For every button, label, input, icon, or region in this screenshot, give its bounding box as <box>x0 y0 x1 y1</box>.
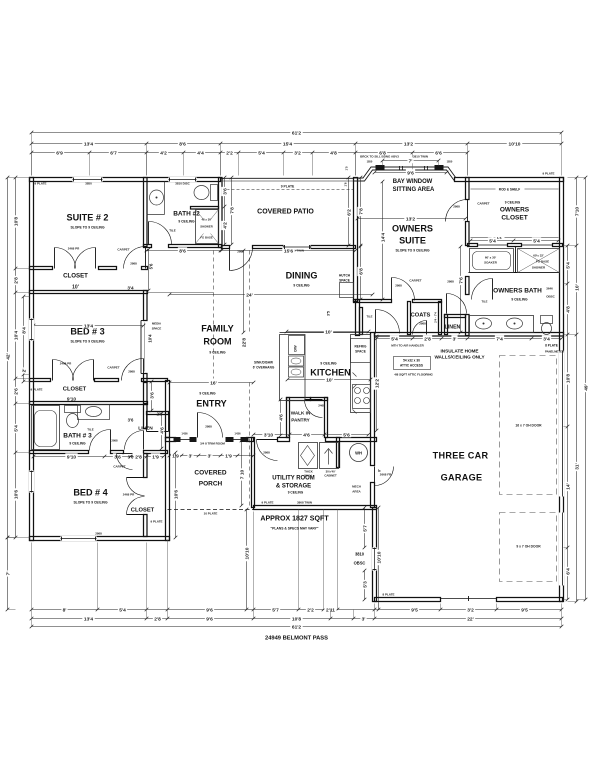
svg-text:3'5: 3'5 <box>327 311 331 316</box>
svg-text:SLOPE TO 9 CEILING: SLOPE TO 9 CEILING <box>395 249 430 253</box>
svg-text:10'4: 10'4 <box>13 331 19 341</box>
svg-text:2468: 2468 <box>318 404 325 408</box>
svg-text:FG BASE: FG BASE <box>200 236 213 240</box>
svg-text:10'4: 10'4 <box>148 334 153 343</box>
svg-text:3': 3' <box>189 453 193 459</box>
svg-text:CARPET: CARPET <box>107 366 119 370</box>
svg-text:7': 7' <box>5 572 11 576</box>
svg-text:1'9: 1'9 <box>225 453 232 459</box>
svg-text:15'4: 15'4 <box>283 141 293 147</box>
svg-text:8'6: 8'6 <box>179 141 186 147</box>
svg-text:5'7: 5'7 <box>272 607 279 613</box>
svg-text:22': 22' <box>467 616 474 622</box>
svg-text:& STORAGE: & STORAGE <box>276 484 311 490</box>
svg-text:54 x32 x 30: 54 x32 x 30 <box>403 359 420 363</box>
svg-text:"PLANS & SPECS MAY VARY": "PLANS & SPECS MAY VARY" <box>271 527 319 531</box>
svg-text:1436: 1436 <box>181 432 188 436</box>
svg-text:1436: 1436 <box>234 432 241 436</box>
svg-text:8': 8' <box>378 469 382 472</box>
svg-text:SOAKER: SOAKER <box>484 261 498 265</box>
svg-text:6'6: 6'6 <box>435 150 442 156</box>
svg-text:2'4 - 7'4: 2'4 - 7'4 <box>434 312 438 323</box>
svg-text:13'4: 13'4 <box>84 616 94 622</box>
svg-text:24949 BELMONT PASS: 24949 BELMONT PASS <box>265 636 328 642</box>
svg-text:SPACE: SPACE <box>355 350 366 354</box>
svg-text:60' x 30': 60' x 30' <box>485 256 497 260</box>
svg-text:9 PLATE: 9 PLATE <box>262 501 274 505</box>
svg-text:48 x 30': 48 x 30' <box>202 218 212 222</box>
svg-text:2468 PR: 2468 PR <box>60 362 72 366</box>
svg-text:COVERED PATIO: COVERED PATIO <box>257 209 314 216</box>
svg-text:COATS: COATS <box>411 313 431 319</box>
svg-text:SITTING AREA: SITTING AREA <box>393 187 435 193</box>
svg-text:COVERED: COVERED <box>194 470 226 477</box>
svg-text:INSULATE HOME: INSULATE HOME <box>440 349 478 354</box>
svg-text:OBSC: OBSC <box>354 561 366 566</box>
svg-text:BATH #2: BATH #2 <box>173 211 200 218</box>
svg-text:TILE: TILE <box>169 229 175 233</box>
svg-text:49': 49' <box>583 384 589 391</box>
svg-text:ENTRY: ENTRY <box>196 399 226 409</box>
svg-text:2'8: 2'8 <box>154 616 161 622</box>
svg-text:9'10: 9'10 <box>67 397 77 403</box>
svg-text:PANELMETER: PANELMETER <box>545 350 564 354</box>
svg-text:7': 7' <box>409 158 413 164</box>
svg-text:13'2: 13'2 <box>406 216 416 222</box>
svg-text:SHOWER: SHOWER <box>532 266 546 270</box>
svg-text:3810 DISC: 3810 DISC <box>175 182 190 186</box>
svg-text:LINEN: LINEN <box>445 325 461 331</box>
svg-text:3'6: 3'6 <box>222 188 228 195</box>
svg-text:CARPET: CARPET <box>409 279 421 283</box>
svg-text:5'6: 5'6 <box>343 432 350 438</box>
svg-text:5'7: 5'7 <box>362 525 368 532</box>
svg-text:9 x 7 OH DOOR: 9 x 7 OH DOOR <box>516 545 541 549</box>
svg-text:TILE: TILE <box>481 300 487 304</box>
svg-text:6'8: 6'8 <box>358 268 364 275</box>
svg-text:TILE: TILE <box>366 315 372 319</box>
svg-text:SINK/DISHW: SINK/DISHW <box>254 361 273 365</box>
svg-text:CABINET: CABINET <box>324 474 337 478</box>
svg-text:10'6: 10'6 <box>13 490 19 500</box>
svg-text:REFRIG: REFRIG <box>355 345 367 349</box>
svg-text:3810: 3810 <box>355 552 365 557</box>
svg-text:3'4: 3'4 <box>127 286 134 291</box>
svg-text:2868: 2868 <box>263 451 270 455</box>
svg-text:3'6: 3'6 <box>128 418 134 423</box>
svg-text:9'10: 9'10 <box>67 454 77 460</box>
svg-text:4'2: 4'2 <box>222 222 228 229</box>
svg-text:2868: 2868 <box>128 370 135 374</box>
svg-text:3': 3' <box>453 336 457 342</box>
svg-text:BAY WINDOW: BAY WINDOW <box>393 179 433 185</box>
svg-text:9 CEILING: 9 CEILING <box>293 284 310 288</box>
svg-text:22'8: 22'8 <box>241 338 247 348</box>
svg-text:AREA: AREA <box>352 490 361 494</box>
svg-text:BATH # 3: BATH # 3 <box>63 433 92 440</box>
svg-text:WALL: WALL <box>305 474 313 478</box>
svg-text:2'8: 2'8 <box>13 277 19 284</box>
svg-text:9'6: 9'6 <box>206 607 213 613</box>
svg-text:5'4: 5'4 <box>391 336 398 342</box>
svg-text:FAMILY: FAMILY <box>201 324 234 334</box>
svg-text:10'6: 10'6 <box>173 490 179 500</box>
svg-text:9'6: 9'6 <box>206 616 213 622</box>
svg-text:9 CEILING: 9 CEILING <box>320 362 337 366</box>
svg-text:4'8: 4'8 <box>565 306 571 313</box>
svg-text:9 PLATE: 9 PLATE <box>281 185 295 189</box>
svg-text:7'4: 7'4 <box>496 336 503 342</box>
svg-text:10 PLATE: 10 PLATE <box>204 512 218 516</box>
svg-text:7'8: 7'8 <box>229 207 235 214</box>
svg-text:1'5: 1'5 <box>345 166 349 170</box>
svg-text:9 PLATE: 9 PLATE <box>543 172 555 176</box>
svg-text:WALLS/CEILING ONLY: WALLS/CEILING ONLY <box>434 355 485 360</box>
svg-text:13'2: 13'2 <box>404 141 414 147</box>
svg-text:2868: 2868 <box>205 425 212 429</box>
svg-text:SUITE: SUITE <box>399 236 426 246</box>
svg-text:3': 3' <box>362 616 366 622</box>
svg-text:3868 TWIN: 3868 TWIN <box>297 501 312 505</box>
svg-text:5'4: 5'4 <box>565 262 571 269</box>
svg-text:9'6: 9'6 <box>407 170 414 176</box>
svg-text:6'9: 6'9 <box>56 150 63 156</box>
svg-text:ROD & SHELF: ROD & SHELF <box>499 188 520 192</box>
svg-text:3'10: 3'10 <box>264 432 274 438</box>
svg-text:3810 TWIN: 3810 TWIN <box>413 155 428 159</box>
svg-text:8 PLATE: 8 PLATE <box>383 593 395 597</box>
svg-text:4'6: 4'6 <box>159 427 165 434</box>
svg-text:2868: 2868 <box>453 205 460 209</box>
svg-text:7'6: 7'6 <box>458 277 464 284</box>
svg-text:DINING: DINING <box>286 271 318 281</box>
svg-text:4'4: 4'4 <box>197 150 204 156</box>
svg-text:4'6: 4'6 <box>278 414 284 421</box>
svg-text:WALK IN: WALK IN <box>291 411 311 416</box>
svg-text:GARAGE: GARAGE <box>441 473 483 483</box>
svg-text:12'2: 12'2 <box>374 379 380 389</box>
svg-text:OWNERS: OWNERS <box>392 224 433 234</box>
svg-text:2'2: 2'2 <box>226 150 233 156</box>
svg-text:5'4: 5'4 <box>13 425 19 432</box>
svg-text:5'6: 5'6 <box>149 263 154 269</box>
svg-text:2468 PR: 2468 PR <box>123 493 135 497</box>
svg-text:2'2: 2'2 <box>307 607 314 613</box>
svg-text:KITCHEN: KITCHEN <box>310 368 350 378</box>
svg-text:OBSC: OBSC <box>546 295 555 299</box>
svg-text:CLOSET: CLOSET <box>63 387 87 393</box>
svg-text:2868: 2868 <box>447 280 454 284</box>
svg-text:14'4: 14'4 <box>380 233 386 243</box>
svg-text:3'2: 3'2 <box>294 150 301 156</box>
svg-text:9 PLATE: 9 PLATE <box>35 182 47 186</box>
svg-text:6'4: 6'4 <box>565 568 571 575</box>
svg-text:9 CEILING: 9 CEILING <box>505 201 521 205</box>
svg-text:1'9: 1'9 <box>152 454 159 460</box>
svg-text:16 x 7 OH DOOR: 16 x 7 OH DOOR <box>515 424 542 428</box>
svg-text:9 PLATE: 9 PLATE <box>151 520 163 524</box>
svg-text:13'4: 13'4 <box>84 323 94 329</box>
svg-text:5'4: 5'4 <box>119 607 126 613</box>
svg-text:MTH TO AIR HANDLER: MTH TO AIR HANDLER <box>391 344 424 348</box>
svg-text:7 10: 7 10 <box>239 469 245 479</box>
svg-text:3850: 3850 <box>85 182 92 186</box>
svg-text:CLOSET: CLOSET <box>63 273 88 280</box>
svg-text:9 CEILING: 9 CEILING <box>209 351 226 355</box>
svg-text:5'4: 5'4 <box>489 238 496 244</box>
svg-text:4/8 SQFT ATTIC FLOORING: 4/8 SQFT ATTIC FLOORING <box>394 373 433 377</box>
svg-text:HUTCH: HUTCH <box>339 274 351 278</box>
svg-text:SLOPE TO 9 CEILING: SLOPE TO 9 CEILING <box>73 501 108 505</box>
svg-text:10': 10' <box>72 285 79 291</box>
svg-text:5'4: 5'4 <box>258 150 265 156</box>
svg-text:PANTRY: PANTRY <box>291 418 310 423</box>
svg-text:10'10: 10'10 <box>376 551 382 563</box>
svg-text:THREE CAR: THREE CAR <box>433 451 489 461</box>
svg-text:16': 16' <box>210 380 217 386</box>
svg-text:2868: 2868 <box>237 250 244 254</box>
svg-text:3/4 8 TRIM ROOM: 3/4 8 TRIM ROOM <box>200 442 225 446</box>
svg-text:13'4: 13'4 <box>84 141 94 147</box>
svg-text:TILE: TILE <box>87 428 93 432</box>
svg-text:10'10: 10'10 <box>509 141 521 147</box>
svg-text:ATTIC ACCESS: ATTIC ACCESS <box>400 364 423 368</box>
svg-text:8'6: 8'6 <box>179 248 186 254</box>
svg-text:2468 PR: 2468 PR <box>68 247 80 251</box>
svg-text:24': 24' <box>246 292 253 298</box>
svg-text:7'10: 7'10 <box>574 207 580 217</box>
svg-text:4'6: 4'6 <box>303 432 310 438</box>
svg-text:3'6: 3'6 <box>128 455 134 460</box>
svg-text:6'7: 6'7 <box>110 150 117 156</box>
svg-text:DW: DW <box>293 345 298 352</box>
svg-text:61'2: 61'2 <box>292 624 302 630</box>
svg-text:3'6: 3'6 <box>149 392 155 399</box>
svg-text:BRCK TO SILL BDNG ABV3: BRCK TO SILL BDNG ABV3 <box>360 155 399 159</box>
svg-text:2868: 2868 <box>111 439 118 443</box>
svg-text:60's 32': 60's 32' <box>533 254 544 258</box>
svg-text:8 PLATE: 8 PLATE <box>545 344 558 348</box>
svg-text:4'8: 4'8 <box>330 150 337 156</box>
svg-text:10'8: 10'8 <box>292 616 302 622</box>
svg-text:2'8: 2'8 <box>135 454 142 460</box>
svg-text:9 CEILING: 9 CEILING <box>199 392 216 396</box>
svg-text:31': 31' <box>574 463 580 470</box>
svg-text:SPACE: SPACE <box>152 327 162 331</box>
svg-text:10': 10' <box>325 329 332 335</box>
svg-text:CLOSET: CLOSET <box>501 215 527 222</box>
svg-text:CARPET: CARPET <box>477 202 489 206</box>
svg-text:9 PLATE: 9 PLATE <box>31 388 43 392</box>
svg-text:2868: 2868 <box>130 262 137 266</box>
svg-text:SHOWER: SHOWER <box>200 225 213 229</box>
svg-text:OWNERS BATH: OWNERS BATH <box>493 288 542 295</box>
svg-text:OWNERS: OWNERS <box>500 207 530 214</box>
svg-text:4'2: 4'2 <box>160 150 167 156</box>
svg-text:8': 8' <box>63 607 67 613</box>
svg-text:2'8: 2'8 <box>424 336 431 342</box>
svg-text:PORCH: PORCH <box>199 481 223 488</box>
svg-text:6'2: 6'2 <box>346 209 352 216</box>
svg-text:5'4: 5'4 <box>533 238 540 244</box>
svg-text:CARPET: CARPET <box>117 248 129 252</box>
svg-text:ROOM: ROOM <box>203 337 231 347</box>
svg-text:MEDIA: MEDIA <box>152 322 161 326</box>
svg-text:3'4: 3'4 <box>543 336 550 342</box>
svg-text:1850: 1850 <box>367 160 373 164</box>
svg-text:CARPET: CARPET <box>113 465 125 469</box>
svg-text:3'2: 3'2 <box>467 607 474 613</box>
svg-text:1850: 1850 <box>447 160 453 164</box>
svg-text:CLOSET: CLOSET <box>131 508 155 514</box>
svg-text:1'6: 1'6 <box>344 182 348 186</box>
svg-text:7'8: 7'8 <box>358 208 364 215</box>
svg-text:FG BASE: FG BASE <box>536 260 549 264</box>
svg-text:9 CEILING: 9 CEILING <box>178 220 195 224</box>
svg-text:10'8: 10'8 <box>13 217 19 227</box>
svg-text:9 CEILING: 9 CEILING <box>511 298 528 302</box>
svg-text:10'10: 10'10 <box>244 547 250 559</box>
svg-text:8'4: 8'4 <box>21 327 27 334</box>
svg-text:3': 3' <box>208 453 212 459</box>
svg-text:2'6: 2'6 <box>157 412 163 417</box>
svg-text:BED # 4: BED # 4 <box>73 488 108 498</box>
svg-text:WH: WH <box>355 451 362 456</box>
svg-text:9 CEILING: 9 CEILING <box>288 491 304 495</box>
svg-text:SPACE: SPACE <box>339 279 350 283</box>
svg-text:61'2: 61'2 <box>292 130 302 136</box>
svg-text:2': 2' <box>21 369 27 373</box>
svg-text:9 CEILING: 9 CEILING <box>69 442 86 446</box>
svg-text:10': 10' <box>326 377 333 383</box>
svg-text:5'3: 5'3 <box>362 581 368 588</box>
svg-text:APPROX 1827 SQFT: APPROX 1827 SQFT <box>260 516 329 523</box>
svg-text:10'8: 10'8 <box>565 374 571 384</box>
svg-text:9'5: 9'5 <box>411 607 418 613</box>
svg-text:SLOPE TO 9 CEILING: SLOPE TO 9 CEILING <box>70 226 105 230</box>
svg-text:SUITE # 2: SUITE # 2 <box>67 213 109 223</box>
svg-text:42': 42' <box>5 353 11 360</box>
svg-text:SLOPE TO 9 CEILING: SLOPE TO 9 CEILING <box>70 340 105 344</box>
svg-text:3646: 3646 <box>546 287 553 291</box>
svg-text:9'5: 9'5 <box>521 607 528 613</box>
svg-text:6' OVERHANG: 6' OVERHANG <box>253 366 275 370</box>
svg-text:10': 10' <box>574 284 580 291</box>
svg-text:2668 FR: 2668 FR <box>380 473 392 477</box>
svg-text:2868: 2868 <box>395 284 402 288</box>
svg-text:2'6: 2'6 <box>13 388 19 395</box>
svg-text:2868: 2868 <box>95 532 102 536</box>
svg-text:14': 14' <box>565 483 571 490</box>
svg-text:MECH: MECH <box>352 485 361 489</box>
